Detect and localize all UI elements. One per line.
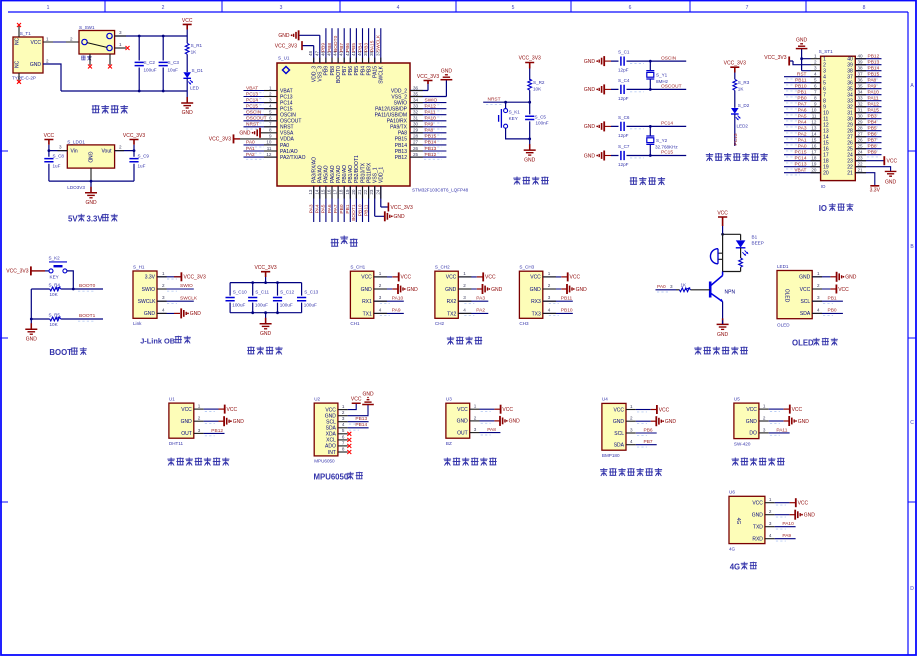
svg-text:PB11: PB11 (795, 78, 807, 84)
svg-text:3: 3 (817, 295, 820, 300)
IO pin 17 net PC15 (784, 150, 821, 157)
svg-text:33: 33 (413, 104, 419, 109)
capacitor S_C9 1uF (133, 151, 135, 182)
no-connect X (17, 23, 21, 27)
svg-text:2: 2 (630, 416, 633, 421)
svg-text:1uF: 1uF (138, 164, 146, 169)
svg-text:PB1: PB1 (828, 295, 837, 301)
junction (276, 311, 279, 314)
svg-text:PB14: PB14 (868, 66, 880, 72)
svg-text:PB15: PB15 (868, 72, 880, 78)
svg-text:NC: NC (15, 37, 21, 45)
junction (90, 180, 93, 183)
power VCC (44, 140, 53, 145)
svg-text:PA10: PA10 (782, 521, 794, 527)
pin 30 PA9/TX wire + net PA9 (410, 122, 446, 129)
pin 27 PB14 wire + net PB14 (410, 140, 446, 147)
svg-text:PB0: PB0 (339, 204, 345, 213)
svg-text:PA3: PA3 (309, 204, 315, 213)
svg-text:PB4: PB4 (357, 43, 363, 52)
junction (162, 90, 165, 93)
svg-text:21: 21 (847, 171, 853, 177)
svg-text:34: 34 (858, 90, 864, 95)
key S_K2 (45, 256, 67, 280)
IO pin 21 (855, 168, 880, 194)
svg-text:6: 6 (629, 5, 632, 11)
svg-text:LED1: LED1 (777, 264, 789, 269)
svg-text:GND: GND (798, 419, 810, 425)
svg-text:10K: 10K (50, 292, 59, 297)
svg-text:GND: GND (87, 151, 93, 163)
resistor S_R4 10K / BOOT0 (31, 283, 103, 298)
svg-text:PA4: PA4 (798, 120, 807, 126)
svg-text:3: 3 (269, 97, 272, 102)
svg-text:PB13: PB13 (868, 60, 880, 66)
svg-text:TX2: TX2 (447, 311, 456, 317)
svg-text:48: 48 (308, 50, 313, 56)
svg-text:BOOT0: BOOT0 (336, 66, 342, 83)
svg-text:S_K1: S_K1 (509, 110, 521, 115)
svg-text:CH2: CH2 (435, 321, 445, 326)
svg-text:12pF: 12pF (618, 96, 629, 101)
power VCC_3V3 (130, 140, 139, 145)
pin 8 VSSA to GND (239, 128, 277, 138)
svg-text:3: 3 (162, 295, 165, 300)
pin 14 PA4/AO bottom (314, 186, 320, 222)
svg-text:GND: GND (746, 419, 758, 425)
svg-text:BOOT1: BOOT1 (351, 204, 357, 221)
svg-text:1: 1 (763, 404, 766, 409)
svg-text:3: 3 (763, 427, 766, 432)
CH2 pin3 net PA3 (458, 295, 488, 303)
ground GND (584, 56, 611, 66)
connector S_CH3 CH3 (519, 265, 542, 327)
svg-text:PB6: PB6 (644, 427, 653, 433)
svg-text:PA5/AO: PA5/AO (324, 165, 330, 183)
svg-text:PB3: PB3 (366, 66, 372, 76)
svg-text:VCC: VCC (401, 275, 412, 281)
svg-text:PB11: PB11 (561, 295, 573, 301)
svg-text:CH3: CH3 (519, 321, 529, 326)
svg-text:26: 26 (858, 138, 864, 143)
pin 24 VDD_1 bottom (375, 186, 413, 212)
OLED pin1 GND (812, 271, 857, 282)
pin 42 PB6 top (345, 28, 351, 63)
svg-text:VCC: VCC (659, 407, 670, 413)
wire GND pin2 down to rail (43, 64, 61, 91)
pin 47 VSS_3 top (278, 30, 319, 63)
U1 pin2 GND gnd (194, 416, 244, 427)
svg-text:CH1: CH1 (350, 321, 360, 326)
regulator S_LDO1 LDO3V3 (67, 140, 114, 191)
CH3 pin2 GND (543, 283, 587, 294)
svg-text:100uF: 100uF (255, 303, 268, 308)
svg-text:PB12: PB12 (395, 155, 407, 161)
svg-text:VCC_3V3: VCC_3V3 (391, 205, 413, 211)
svg-text:OUT: OUT (457, 430, 468, 436)
svg-text:5V: 5V (68, 215, 78, 224)
IO pin 4 net RST (784, 72, 821, 79)
svg-text:3: 3 (342, 416, 345, 421)
svg-text:VCC_3V3: VCC_3V3 (209, 137, 231, 143)
svg-text:S_K2: S_K2 (49, 256, 61, 261)
U2 pin6 XCL nc (338, 434, 351, 442)
svg-text:PB14: PB14 (355, 422, 367, 428)
svg-text:33: 33 (858, 96, 864, 101)
svg-text:21: 21 (357, 189, 362, 195)
svg-text:GND: GND (260, 331, 272, 337)
svg-text:BOOT0: BOOT0 (333, 35, 339, 52)
pin 6 OSCOUT wire + net OSCOUT (244, 116, 278, 123)
svg-text:VCC: VCC (361, 275, 372, 281)
title 晶振电路 (630, 177, 665, 185)
svg-text:PA9: PA9 (392, 308, 401, 314)
svg-text:VCC: VCC (351, 397, 362, 403)
svg-text:PB7: PB7 (644, 439, 653, 445)
svg-text:32: 32 (413, 110, 419, 115)
junction (649, 125, 652, 128)
svg-text:SWCLK: SWCLK (138, 299, 156, 305)
svg-text:S_ST1: S_ST1 (819, 49, 833, 54)
svg-text:PB2/BOOT1: PB2/BOOT1 (354, 155, 360, 183)
svg-text:4: 4 (814, 72, 817, 77)
svg-text:DO: DO (749, 431, 757, 437)
svg-text:PA2/TX/AO: PA2/TX/AO (280, 155, 306, 161)
svg-text:14: 14 (811, 132, 817, 137)
capacitor S_C5 100nF (529, 102, 531, 139)
svg-text:PB10: PB10 (795, 84, 807, 90)
svg-text:BOOT1: BOOT1 (79, 313, 96, 319)
svg-text:SDA: SDA (800, 311, 811, 317)
U2 pin7 ADO nc (338, 440, 351, 448)
U2 pin1 VCC vccup (338, 397, 362, 410)
capacitor S_C8 1uF (48, 151, 50, 182)
svg-text:NPN: NPN (725, 290, 736, 296)
svg-text:4G: 4G (729, 546, 736, 551)
svg-text:PA15: PA15 (868, 108, 880, 114)
svg-text:24: 24 (858, 150, 864, 155)
U6 pin3 TXD net PA10 (765, 521, 796, 529)
svg-text:OLED: OLED (777, 323, 790, 328)
svg-text:1: 1 (269, 85, 272, 90)
svg-text:S_C10: S_C10 (233, 289, 247, 294)
junction (162, 35, 165, 38)
junction (133, 149, 136, 152)
svg-text:PB1/AO: PB1/AO (348, 165, 354, 183)
LED branch (723, 234, 749, 271)
svg-text:S_C6: S_C6 (618, 115, 630, 120)
title 震动检测模块 (732, 458, 785, 466)
svg-text:PB7: PB7 (868, 138, 877, 144)
svg-text:OSCOUT: OSCOUT (246, 116, 267, 122)
pin 37 SWCLK top (375, 28, 381, 63)
OLED pin4 net PB0 (812, 307, 843, 315)
svg-text:25: 25 (413, 152, 419, 157)
svg-text:RST: RST (797, 72, 807, 78)
svg-text:NRST: NRST (246, 122, 259, 128)
svg-text:PB4: PB4 (868, 120, 877, 126)
IO pin 35 net PA9 (855, 84, 881, 91)
junction (72, 288, 75, 291)
svg-text:1: 1 (46, 37, 49, 42)
module U6 4G (729, 490, 765, 552)
svg-text:PB5: PB5 (351, 43, 357, 52)
title 声光报警电路 (694, 347, 748, 355)
svg-text:PB3: PB3 (363, 43, 369, 52)
svg-text:IO: IO (821, 184, 826, 189)
crystal S_Y1 8MHz (646, 61, 668, 89)
svg-text:10uF: 10uF (168, 68, 179, 73)
connector S_H1 Link (133, 265, 157, 327)
title 程序运行指示灯 (706, 153, 768, 161)
svg-text:VDD_1: VDD_1 (379, 167, 385, 183)
svg-text:3: 3 (280, 5, 283, 11)
svg-text:12pF: 12pF (618, 133, 629, 138)
svg-text:S_CH2: S_CH2 (435, 265, 450, 270)
ground GND (90, 181, 92, 192)
svg-text:SCL: SCL (326, 420, 336, 426)
svg-text:15: 15 (811, 138, 817, 143)
svg-text:STM32F103C8T6_LQFP48: STM32F103C8T6_LQFP48 (412, 188, 469, 193)
svg-text:U3: U3 (446, 396, 452, 401)
svg-text:GND: GND (885, 180, 897, 186)
IO pin 37 net PB15 (855, 72, 881, 79)
IO pin 9 net PA7 (784, 102, 821, 109)
U1 pin3 OUT net PB12 (194, 428, 225, 436)
svg-text:U6: U6 (729, 490, 735, 495)
ground GND (584, 84, 611, 94)
IO pin 38 net PB14 (855, 66, 881, 73)
svg-text:GND: GND (509, 419, 520, 425)
IO pin 10 net PA6 (784, 108, 821, 115)
svg-text:27: 27 (858, 132, 864, 137)
svg-text:SWIO: SWIO (425, 97, 438, 103)
svg-text:2: 2 (814, 60, 817, 65)
svg-text:S_D1: S_D1 (192, 68, 204, 73)
pin 26 PB13 wire + net PB13 (410, 146, 446, 153)
pin 1 VBAT wire + net VBAT (244, 85, 278, 92)
svg-text:XDA: XDA (326, 432, 337, 438)
no-connect X (88, 65, 92, 69)
svg-text:PB11/RX: PB11/RX (366, 162, 372, 183)
title 主芯片 (331, 236, 358, 247)
svg-text:19: 19 (345, 189, 350, 195)
svg-text:20: 20 (811, 168, 817, 173)
no-connect X (17, 80, 21, 84)
svg-text:PA6: PA6 (327, 204, 333, 213)
IO pin 5 net PB11 (784, 78, 821, 85)
U3 pin1 VCC vcc (470, 404, 514, 414)
connector LED1 OLED (777, 264, 812, 328)
svg-text:PB0/AO: PB0/AO (342, 165, 348, 183)
pin 15 PA5/AO bottom (320, 186, 326, 222)
IO pin 28 net PB5 (855, 126, 881, 133)
U4 pin3 SCL net PB6 (626, 427, 657, 435)
svg-text:VCC: VCC (613, 407, 624, 413)
svg-text:PC15: PC15 (246, 104, 258, 110)
svg-text:37: 37 (858, 72, 864, 77)
svg-text:PA10: PA10 (392, 295, 404, 301)
svg-text:PA15: PA15 (370, 40, 376, 52)
svg-text:BOOT: BOOT (49, 348, 72, 357)
junction (251, 281, 254, 284)
svg-text:S_C11: S_C11 (255, 289, 269, 294)
svg-text:14: 14 (314, 189, 319, 195)
IO pin 26 net PB7 (855, 138, 881, 145)
svg-text:PB11: PB11 (363, 204, 369, 216)
svg-text:GND: GND (144, 311, 156, 317)
IO pin 7 net PB1 (784, 90, 821, 97)
connector S_CH2 CH2 (435, 265, 458, 327)
wire NRST net (483, 101, 530, 103)
svg-text:8: 8 (342, 446, 345, 451)
svg-text:VCC: VCC (838, 287, 849, 293)
svg-text:9: 9 (814, 102, 817, 107)
svg-text:BZ: BZ (446, 441, 452, 446)
CH1 pin4 net PA9 (374, 307, 404, 315)
svg-text:PA6: PA6 (798, 108, 807, 114)
svg-text:TX1: TX1 (363, 311, 372, 317)
svg-text:S_R1: S_R1 (191, 43, 203, 48)
pin 48 VDD_3 top (275, 41, 314, 63)
svg-text:GND: GND (26, 337, 38, 343)
svg-text:GND: GND (613, 419, 625, 425)
S_T1 bottom NC pin (18, 73, 20, 81)
svg-text:34: 34 (413, 97, 419, 102)
svg-text:S_C1: S_C1 (618, 50, 630, 55)
svg-text:15: 15 (320, 189, 325, 195)
svg-text:PB7: PB7 (342, 66, 348, 76)
svg-text:S_CH1: S_CH1 (350, 265, 365, 270)
svg-text:2: 2 (763, 415, 766, 420)
svg-text:GND: GND (181, 419, 193, 425)
power VCC_3V3 (525, 63, 534, 69)
svg-text:B1: B1 (752, 235, 758, 240)
IO pin 25 net PB8 (855, 144, 881, 151)
emitter to GND (722, 302, 724, 321)
svg-text:12pF: 12pF (618, 68, 629, 73)
svg-text:VCC_3V3: VCC_3V3 (6, 269, 28, 275)
IO pin 1 stub (811, 54, 821, 59)
svg-text:BOOT0: BOOT0 (79, 283, 96, 289)
svg-text:3: 3 (630, 427, 633, 432)
svg-text:KEY: KEY (509, 116, 518, 121)
module U2 MPU6050 (314, 396, 338, 463)
svg-text:PB4: PB4 (360, 66, 366, 76)
svg-text:GND: GND (524, 158, 536, 164)
svg-text:4: 4 (379, 307, 382, 312)
IO pin 16 net PA0 (784, 144, 821, 151)
no-connect X (108, 65, 112, 69)
svg-text:PB6: PB6 (868, 132, 877, 138)
svg-text:GND: GND (576, 287, 588, 293)
svg-text:27: 27 (413, 140, 419, 145)
svg-text:SWCLK: SWCLK (376, 34, 382, 52)
U6 pin1 VCC vcc (765, 497, 809, 507)
svg-text:MPU6050: MPU6050 (314, 459, 335, 464)
svg-text:RX2: RX2 (447, 299, 457, 305)
svg-text:PA11: PA11 (868, 96, 879, 102)
svg-text:1: 1 (630, 404, 633, 409)
svg-text:VCC: VCC (446, 275, 457, 281)
pin 10 PA0 wire + net PA0 (244, 140, 278, 147)
svg-text:PB6: PB6 (348, 66, 354, 76)
pin 35 VSS_2 to GND (410, 69, 452, 97)
svg-text:PB8: PB8 (327, 43, 333, 52)
svg-text:11: 11 (267, 146, 272, 151)
svg-text:6: 6 (342, 434, 345, 439)
svg-text:PB8: PB8 (330, 66, 336, 76)
svg-text:PC15: PC15 (661, 150, 673, 156)
IO pin 34 net PA10 (855, 90, 881, 97)
svg-text:PA9: PA9 (868, 84, 877, 90)
svg-text:PA3: PA3 (798, 126, 807, 132)
svg-text:31: 31 (413, 116, 419, 121)
svg-text:SCL: SCL (614, 431, 624, 437)
title 4G模块 (730, 562, 757, 572)
svg-text:S_SW1: S_SW1 (79, 25, 95, 30)
pin 7 NRST wire + net NRST (244, 122, 278, 129)
title J-Link OB接口 (140, 336, 191, 346)
svg-text:32: 32 (858, 102, 864, 107)
pin 16 PA6/AO bottom (327, 186, 333, 222)
svg-text:GND: GND (717, 332, 729, 338)
svg-text:S_T1: S_T1 (20, 31, 31, 36)
pin 20 PB2/BOOT1 bottom (351, 186, 357, 222)
svg-text:4: 4 (769, 533, 772, 538)
U4 pin2 GND gnd (626, 416, 676, 427)
svg-text:PA4/AO: PA4/AO (318, 165, 324, 183)
svg-text:BEEP: BEEP (752, 241, 764, 246)
svg-text:VCC: VCC (30, 40, 41, 46)
svg-text:S_C13: S_C13 (304, 289, 318, 294)
svg-text:VCC: VCC (717, 211, 728, 217)
IO pin 23 (855, 156, 897, 166)
svg-text:PB5: PB5 (868, 126, 877, 132)
svg-text:VCC_3V3: VCC_3V3 (764, 55, 786, 61)
pin 19 PB1/AO bottom (345, 186, 351, 222)
svg-text:4: 4 (162, 307, 165, 312)
junction (138, 35, 141, 38)
svg-text:PA12: PA12 (425, 104, 437, 110)
pin 46 PB9 top (320, 28, 326, 63)
H1 pin3 net SWCLK (157, 295, 198, 303)
svg-text:VCC: VCC (752, 501, 763, 507)
svg-text:PB1: PB1 (345, 204, 351, 213)
svg-text:2: 2 (162, 5, 165, 11)
svg-text:1: 1 (162, 271, 165, 276)
CH2 pin4 net PA2 (458, 307, 488, 315)
IO pin 8 net PB0 (784, 96, 821, 103)
U2 pin8 INT nc (338, 446, 351, 454)
svg-text:11: 11 (812, 114, 817, 119)
svg-text:GND: GND (752, 513, 764, 519)
title 复位电路 (513, 177, 548, 185)
svg-text:GND: GND (445, 287, 457, 293)
svg-text:23: 23 (369, 189, 374, 195)
svg-text:1: 1 (379, 271, 382, 276)
svg-text:1: 1 (817, 271, 820, 276)
svg-text:PB0: PB0 (797, 96, 806, 102)
svg-text:GND: GND (457, 419, 469, 425)
svg-text:8: 8 (814, 96, 817, 101)
U4 pin4 SDA net PB7 (626, 439, 657, 447)
junction node (723, 233, 741, 235)
svg-text:3: 3 (379, 295, 382, 300)
capacitor S_C10 100uF (226, 283, 248, 313)
svg-text:PA1: PA1 (246, 146, 255, 152)
svg-text:PA12: PA12 (868, 102, 880, 108)
